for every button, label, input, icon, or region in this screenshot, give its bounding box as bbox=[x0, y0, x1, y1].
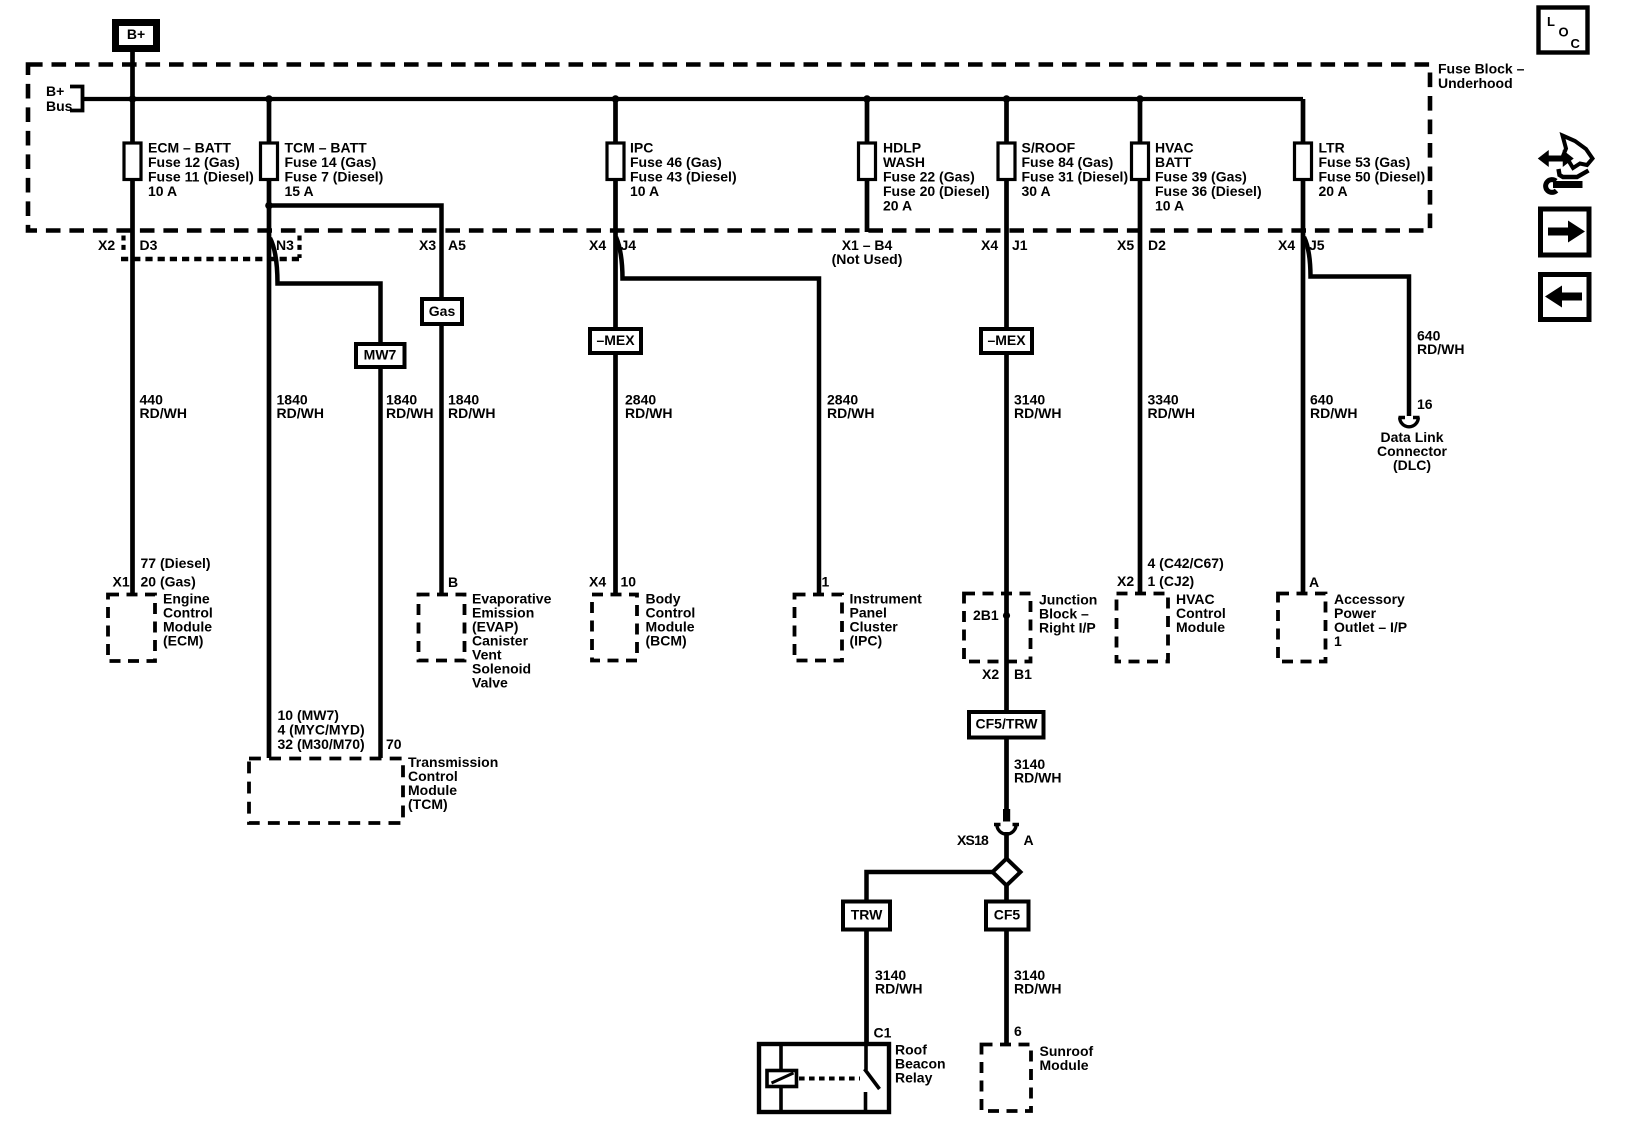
data link connector DLC (female symbol) bbox=[1399, 418, 1420, 427]
svg-text:X4: X4 bbox=[589, 573, 606, 589]
relay K1 coil leads bbox=[779, 1046, 783, 1071]
svg-text:–MEX: –MEX bbox=[596, 332, 635, 348]
svg-text:4 (C42/C67): 4 (C42/C67) bbox=[1148, 555, 1224, 571]
wire HDLP WASH fuse feed (not used) bbox=[865, 99, 870, 232]
fuse F3 IPC bbox=[607, 143, 624, 180]
relay K1 coil element bbox=[767, 1071, 797, 1087]
svg-text:CF5: CF5 bbox=[994, 907, 1021, 923]
inline connector X318 pin A (male/female halves) bbox=[1003, 809, 1010, 822]
svg-text:(ECM): (ECM) bbox=[163, 632, 203, 648]
svg-text:X3: X3 bbox=[419, 237, 436, 253]
svg-text:20 A: 20 A bbox=[1319, 183, 1348, 199]
junction dots on B+ bus bbox=[129, 95, 137, 103]
module Evaporative Emission Canister Vent Solenoid Valve (dashed) bbox=[419, 595, 465, 661]
svg-text:XS18: XS18 bbox=[957, 832, 989, 848]
svg-text:10 A: 10 A bbox=[148, 183, 177, 199]
svg-text:–MEX: –MEX bbox=[987, 332, 1026, 348]
svg-text:Gas: Gas bbox=[429, 303, 456, 319]
svg-text:CF5/TRW: CF5/TRW bbox=[976, 716, 1039, 732]
svg-text:(IPC): (IPC) bbox=[850, 632, 883, 648]
svg-text:10 A: 10 A bbox=[1155, 197, 1184, 213]
svg-text:Outlet – I/P: Outlet – I/P bbox=[1334, 619, 1407, 635]
svg-text:RD/WH: RD/WH bbox=[1310, 405, 1357, 421]
svg-text:A: A bbox=[1309, 574, 1319, 590]
svg-text:6: 6 bbox=[1014, 1023, 1022, 1039]
wire branch LTR connector J5 to DLC bbox=[1304, 237, 1409, 416]
wire splice to TRW leg bbox=[867, 872, 994, 902]
svg-text:RD/WH: RD/WH bbox=[1014, 770, 1061, 786]
svg-text:B: B bbox=[448, 574, 458, 590]
icon LOC box bbox=[1539, 8, 1588, 53]
svg-text:X4: X4 bbox=[589, 237, 606, 253]
module U4 Junction Block - Right I/P (dashed) bbox=[964, 594, 1031, 662]
module U5 HVAC Control Module (dashed) bbox=[1117, 594, 1169, 662]
fuse F4 HDLP WASH bbox=[859, 143, 876, 180]
svg-text:B+: B+ bbox=[46, 83, 64, 99]
splice S1 (diamond) bbox=[993, 859, 1021, 886]
wire HVAC BATT fuse feed bbox=[1138, 99, 1143, 595]
svg-text:Relay: Relay bbox=[895, 1069, 933, 1085]
svg-text:J5: J5 bbox=[1309, 237, 1325, 253]
wire CF5 to sunroof module bbox=[1004, 930, 1009, 1047]
svg-text:16: 16 bbox=[1417, 396, 1433, 412]
svg-text:N3: N3 bbox=[276, 237, 294, 253]
svg-text:L: L bbox=[1547, 14, 1555, 29]
svg-text:RD/WH: RD/WH bbox=[386, 405, 433, 421]
svg-text:70: 70 bbox=[386, 736, 402, 752]
svg-text:A: A bbox=[1024, 832, 1034, 848]
relay K1 switch blade and contact bbox=[864, 1044, 868, 1070]
svg-text:30 A: 30 A bbox=[1022, 183, 1051, 199]
wire TCM-BATT feed bbox=[267, 99, 272, 758]
option box -MEX on BCM wire bbox=[590, 329, 641, 353]
svg-text:1: 1 bbox=[1334, 633, 1342, 649]
svg-text:Valve: Valve bbox=[472, 674, 508, 690]
svg-text:RD/WH: RD/WH bbox=[1148, 405, 1195, 421]
wire X318 to splice diamond bbox=[1004, 832, 1009, 860]
wire IPC fuse feed bbox=[613, 99, 618, 595]
option box MW7 (TCM branch) bbox=[356, 344, 405, 367]
svg-text:RD/WH: RD/WH bbox=[448, 405, 495, 421]
icon pointer hand with arrows bbox=[1562, 136, 1593, 169]
module Accessory Power Outlet - I/P (dashed) bbox=[1278, 594, 1326, 662]
svg-text:RD/WH: RD/WH bbox=[140, 405, 187, 421]
svg-text:32 (M30/M70): 32 (M30/M70) bbox=[278, 736, 365, 752]
svg-text:MW7: MW7 bbox=[364, 347, 397, 363]
svg-text:1 (CJ2): 1 (CJ2) bbox=[1148, 573, 1195, 589]
svg-text:10 A: 10 A bbox=[630, 183, 659, 199]
svg-text:(Not Used): (Not Used) bbox=[832, 251, 903, 267]
svg-text:D3: D3 bbox=[140, 237, 158, 253]
module U3 Instrument Panel Cluster (dashed) bbox=[795, 595, 843, 661]
svg-text:Bus: Bus bbox=[46, 98, 73, 114]
module U1 Engine Control Module (dashed) bbox=[108, 595, 155, 662]
svg-text:Right I/P: Right I/P bbox=[1039, 619, 1096, 635]
svg-text:(TCM): (TCM) bbox=[408, 796, 448, 812]
svg-text:X2: X2 bbox=[982, 666, 999, 682]
svg-text:B+: B+ bbox=[127, 26, 145, 42]
svg-text:10: 10 bbox=[621, 573, 637, 589]
svg-text:RD/WH: RD/WH bbox=[1014, 981, 1061, 997]
svg-text:RD/WH: RD/WH bbox=[277, 405, 324, 421]
wire CF5/TRW to inline connector X318 bbox=[1004, 738, 1009, 811]
relay K1 actuating link (dashed) bbox=[799, 1077, 860, 1081]
svg-text:J4: J4 bbox=[621, 237, 637, 253]
option box TRW bbox=[843, 902, 890, 930]
svg-text:O: O bbox=[1559, 25, 1569, 40]
battery feed terminal B+ bbox=[116, 23, 157, 49]
fuse F2 TCM-BATT bbox=[261, 143, 278, 180]
wire branch TCM connector N3 to MW7 splice bbox=[270, 238, 381, 758]
fuse F5 S/ROOF bbox=[998, 143, 1015, 180]
wire branch TCM fuse to EVAP valve bbox=[269, 206, 442, 595]
option box Gas (EVAP branch) bbox=[422, 299, 462, 324]
connector strip X2 (dotted) bbox=[121, 236, 125, 255]
svg-text:X5: X5 bbox=[1117, 237, 1134, 253]
fuse F7 LTR bbox=[1295, 143, 1312, 180]
wire branch IPC connector J4 to instrument cluster bbox=[616, 237, 819, 595]
wire S/ROOF fuse feed bbox=[1004, 99, 1009, 712]
svg-text:C: C bbox=[1571, 36, 1581, 51]
node TCM fuse output junction bbox=[265, 202, 273, 210]
wire splice to CF5 leg bbox=[1004, 885, 1009, 902]
icon back arrow box bbox=[1541, 275, 1590, 320]
wire LTR fuse feed bbox=[1301, 99, 1306, 595]
svg-text:2B1: 2B1 bbox=[973, 607, 999, 623]
svg-text:D2: D2 bbox=[1148, 237, 1166, 253]
svg-text:J1: J1 bbox=[1012, 237, 1028, 253]
svg-text:15 A: 15 A bbox=[285, 183, 314, 199]
svg-text:Module: Module bbox=[1040, 1057, 1089, 1073]
svg-text:77 (Diesel): 77 (Diesel) bbox=[141, 555, 211, 571]
svg-text:X2: X2 bbox=[98, 237, 115, 253]
svg-text:X4: X4 bbox=[981, 237, 998, 253]
svg-text:(BCM): (BCM) bbox=[646, 632, 687, 648]
svg-text:RD/WH: RD/WH bbox=[875, 981, 922, 997]
icon forward arrow box bbox=[1541, 209, 1590, 255]
module U7 Sunroof Module (dashed) bbox=[982, 1045, 1032, 1112]
wire TRW to roof beacon relay C1 bbox=[864, 930, 869, 1047]
fuse F1 ECM-BATT bbox=[124, 143, 141, 180]
svg-text:20 (Gas): 20 (Gas) bbox=[141, 573, 196, 589]
svg-text:Underhood: Underhood bbox=[1438, 75, 1513, 91]
svg-text:1: 1 bbox=[822, 573, 830, 589]
svg-text:(DLC): (DLC) bbox=[1393, 457, 1431, 473]
svg-text:20 A: 20 A bbox=[883, 197, 912, 213]
option box CF5 bbox=[986, 902, 1029, 930]
svg-text:X4: X4 bbox=[1278, 237, 1295, 253]
module U2 Body Control Module (dashed) bbox=[592, 595, 637, 661]
svg-text:Module: Module bbox=[1176, 619, 1225, 635]
option box -MEX on junction block wire bbox=[981, 329, 1032, 353]
module U6 Transmission Control Module (dashed) bbox=[249, 759, 403, 824]
splice box CF5/TRW bbox=[969, 712, 1044, 738]
relay K1 Roof Beacon Relay (outline) bbox=[759, 1044, 889, 1112]
svg-text:RD/WH: RD/WH bbox=[1417, 341, 1464, 357]
wire B+ terminal to ECM-BATT fuse to ECM bbox=[130, 49, 135, 595]
svg-text:X2: X2 bbox=[1117, 573, 1134, 589]
svg-text:C1: C1 bbox=[874, 1024, 892, 1040]
fuse F6 HVAC BATT bbox=[1132, 143, 1149, 180]
svg-text:X1: X1 bbox=[113, 573, 130, 589]
svg-text:RD/WH: RD/WH bbox=[1014, 405, 1061, 421]
svg-text:A5: A5 bbox=[448, 237, 466, 253]
svg-text:RD/WH: RD/WH bbox=[625, 405, 672, 421]
svg-text:RD/WH: RD/WH bbox=[827, 405, 874, 421]
fuse block - underhood (dashed boundary) bbox=[28, 65, 1430, 231]
wire B+ bus (horizontal feed) bbox=[83, 97, 1304, 101]
svg-text:TRW: TRW bbox=[851, 907, 883, 923]
svg-text:B1: B1 bbox=[1014, 666, 1032, 682]
